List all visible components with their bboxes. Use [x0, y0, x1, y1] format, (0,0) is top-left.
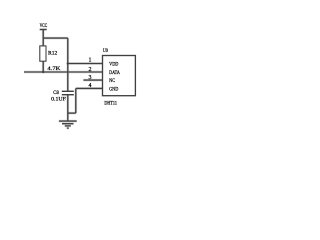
wire DATA line	[24, 71, 103, 73]
svg-text:0.1UF: 0.1UF	[51, 96, 66, 102]
wire VCC branch horizontal	[43, 37, 68, 39]
svg-text:VDD: VDD	[109, 61, 118, 67]
svg-text:NC: NC	[109, 78, 115, 84]
svg-text:U9: U9	[103, 48, 108, 54]
wire pin4 GND	[76, 87, 103, 89]
ground symbol	[59, 121, 77, 128]
wire GND down	[75, 88, 77, 113]
wire resistor bottom lead	[42, 61, 44, 72]
node junction VCC/pin1	[67, 62, 69, 64]
svg-text:3: 3	[89, 75, 92, 81]
svg-text:DATA: DATA	[109, 70, 120, 76]
svg-text:4.7K: 4.7K	[47, 66, 60, 72]
svg-text:R12: R12	[48, 51, 57, 57]
resistor R12 body	[40, 46, 46, 61]
wire pin3 NC stub	[83, 79, 102, 81]
capacitor C8 bottom plate	[62, 94, 74, 96]
svg-text:VCC: VCC	[40, 24, 48, 29]
wire cap bottom lead	[67, 95, 69, 121]
svg-text:GND: GND	[109, 87, 118, 93]
svg-text:1: 1	[89, 57, 92, 63]
svg-text:C8: C8	[53, 90, 59, 96]
vcc bar	[40, 29, 47, 31]
svg-text:DHT11: DHT11	[104, 102, 117, 107]
vcc stem	[42, 30, 44, 47]
svg-text:2: 2	[89, 67, 92, 73]
wire GND left	[68, 112, 76, 114]
IC U9 body	[103, 56, 136, 96]
wire pin1 VDD	[68, 63, 103, 65]
node junction resistor/DATA	[42, 71, 44, 73]
svg-text:4: 4	[89, 83, 92, 89]
wire VCC vertical to cap	[67, 38, 69, 91]
power VCC	[40, 30, 47, 47]
capacitor C8 top plate	[62, 90, 74, 92]
